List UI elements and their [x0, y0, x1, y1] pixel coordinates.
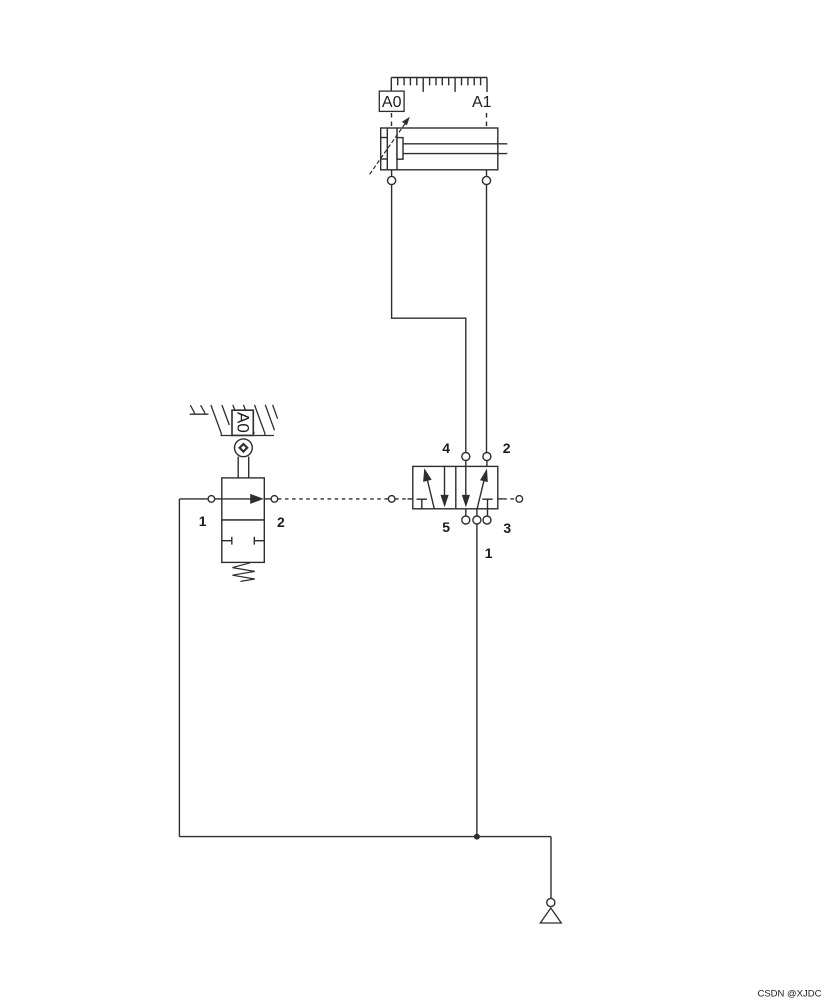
valve V1 pilot line right stub	[498, 496, 523, 503]
roller of limit valve	[235, 439, 253, 478]
distance ruler scale	[391, 78, 487, 93]
wire cylinder left port to valve port 4	[392, 184, 466, 453]
roller valve port labels	[199, 513, 285, 530]
svg-text:1: 1	[485, 545, 493, 561]
cushioning adjust arrow	[370, 117, 410, 175]
cylinder port stubs and circles	[388, 170, 491, 185]
dashed marker A0 to cylinder	[391, 113, 393, 128]
svg-text:1: 1	[199, 513, 207, 529]
valve V1 port 4 circle	[462, 453, 470, 467]
cam rail with hatching (limit A0)	[190, 405, 278, 436]
wire valve port1 down to junction	[476, 524, 478, 837]
supply wire left vertical	[178, 499, 180, 837]
svg-text:4: 4	[442, 440, 450, 456]
roller valve flow path arrow	[222, 494, 264, 504]
valve V1 left position arrows	[417, 466, 449, 508]
port labels of valve V1	[442, 440, 511, 561]
junction	[474, 834, 480, 840]
wire cylinder right port to valve port 2	[486, 184, 488, 453]
svg-text:A0: A0	[233, 412, 252, 433]
valve V1 right position arrows	[462, 466, 493, 516]
supply wire bottom horizontal	[179, 836, 551, 838]
pilot signal dashed line from roller valve	[278, 498, 388, 500]
valve V1 5/2-way body	[413, 466, 498, 508]
svg-text:2: 2	[277, 514, 285, 530]
svg-text:2: 2	[503, 440, 511, 456]
valve V1 port 2 circle	[483, 453, 491, 467]
svg-text:A0: A0	[382, 94, 402, 111]
valve V1 bottom ports 5,1,3	[462, 509, 491, 524]
svg-text:A1: A1	[472, 94, 492, 111]
svg-text:5: 5	[442, 519, 450, 535]
roller valve port 2 circle	[264, 496, 277, 503]
cylinder A (double-acting with adjustable cushioning)	[381, 128, 508, 170]
compressed air source	[540, 898, 561, 923]
valve V1 pilot line left stub	[388, 496, 412, 503]
svg-text:3: 3	[503, 520, 511, 536]
svg-text:CSDN @XJDC: CSDN @XJDC	[757, 989, 821, 1000]
label A1	[472, 94, 492, 111]
label A0 (ruler box)	[379, 91, 404, 111]
wire to air source	[550, 837, 552, 899]
roller valve A0 body (3/2 way)	[222, 478, 264, 563]
roller valve port 1 circle	[179, 496, 221, 503]
roller valve blocked ports	[222, 537, 264, 545]
dashed marker A1 to cylinder	[486, 113, 488, 128]
label A0 (cam box, rotated)	[232, 410, 253, 435]
roller valve return spring	[232, 563, 254, 582]
